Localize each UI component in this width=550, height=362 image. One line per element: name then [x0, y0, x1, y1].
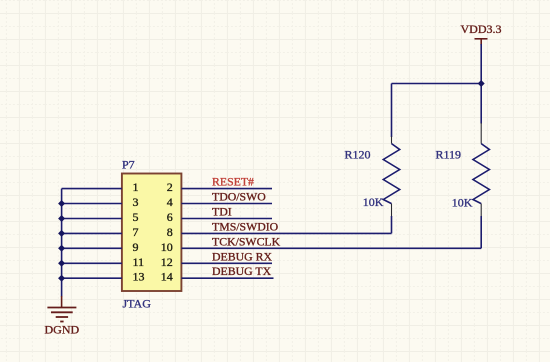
svg-text:TCK/SWCLK: TCK/SWCLK [212, 234, 281, 248]
svg-text:P7: P7 [122, 158, 135, 172]
power port VDD3.3 [475, 39, 488, 45]
wire pin14 DEBUG TX [181, 277, 273, 279]
svg-text:9: 9 [133, 240, 139, 254]
svg-text:12: 12 [161, 255, 173, 269]
wire pin12 DEBUG RX [181, 262, 272, 264]
wire pin8 TMS/SWDIO [181, 232, 391, 234]
wire pin3 left [62, 203, 122, 205]
wire pin6 TDI [181, 218, 272, 220]
wire pin11 left [62, 262, 122, 264]
junction row11 [58, 260, 65, 267]
pin 1 of R120 [391, 204, 393, 217]
svg-text:10: 10 [161, 240, 173, 254]
svg-text:TDO/SWO: TDO/SWO [212, 190, 266, 204]
svg-text:10K: 10K [452, 195, 473, 209]
wire pin2 RESET# [181, 188, 272, 190]
svg-text:R119: R119 [436, 148, 462, 162]
junction VDD branch [478, 80, 485, 87]
svg-text:TDI: TDI [212, 205, 232, 219]
wire pin10 TCK/SWCLK [181, 247, 481, 249]
svg-text:JTAG: JTAG [123, 297, 152, 311]
svg-text:3: 3 [133, 195, 139, 209]
pin 2 of R119 [480, 123, 482, 144]
svg-text:11: 11 [133, 255, 145, 269]
junction row9 [58, 245, 65, 252]
junction row5 [58, 215, 65, 222]
pin 2 of R120 [391, 137, 393, 144]
svg-text:8: 8 [167, 225, 173, 239]
svg-text:DEBUG TX: DEBUG TX [212, 264, 272, 278]
svg-text:6: 6 [167, 210, 173, 224]
wire R119 bottom lead [480, 216, 482, 248]
svg-text:13: 13 [133, 270, 145, 284]
svg-text:VDD3.3: VDD3.3 [461, 22, 502, 36]
svg-text:1: 1 [133, 180, 139, 194]
wire pin9 left [62, 247, 122, 249]
wire left bus vertical [61, 189, 63, 297]
junction row7 [58, 230, 65, 237]
wire VDD horizontal branch [392, 83, 482, 85]
junction row3 [58, 200, 65, 207]
resistor R119 [473, 144, 489, 204]
wire R120 bottom lead [391, 216, 393, 233]
wire pin7 left [62, 232, 122, 234]
ground symbol DGND [47, 296, 76, 322]
resistor R120 [383, 144, 399, 204]
pin 1 of R119 [480, 204, 482, 217]
connector P7 body [122, 174, 181, 292]
svg-text:2: 2 [167, 180, 173, 194]
wire pin1 left [62, 188, 122, 190]
svg-text:7: 7 [133, 225, 139, 239]
svg-text:4: 4 [167, 195, 173, 209]
svg-text:10K: 10K [363, 195, 384, 209]
wire pin13 left [62, 277, 122, 279]
wire VDD vertical [480, 44, 482, 124]
junction row13 [58, 275, 65, 282]
svg-text:RESET#: RESET# [212, 175, 254, 189]
svg-text:R120: R120 [345, 148, 371, 162]
svg-text:DGND: DGND [45, 322, 80, 336]
svg-text:14: 14 [161, 270, 173, 284]
wire R120 top lead [391, 84, 393, 138]
svg-text:DEBUG RX: DEBUG RX [212, 249, 272, 263]
svg-text:5: 5 [133, 210, 139, 224]
wire pin4 TDO/SWO [181, 203, 272, 205]
wire pin5 left [62, 218, 122, 220]
svg-text:TMS/SWDIO: TMS/SWDIO [212, 219, 279, 233]
